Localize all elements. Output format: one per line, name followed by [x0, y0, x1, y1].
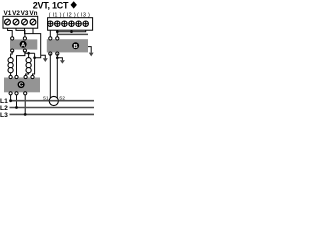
terminal C bottom 1 — [9, 92, 12, 95]
wire C to L2 — [16, 95, 18, 108]
wire box B to CT S2 — [56, 54, 58, 99]
terminal B bottom-right — [56, 52, 59, 55]
current transformer CT on L1 — [49, 96, 58, 105]
svg-text:Vn: Vn — [29, 10, 37, 17]
terminal block voltage V1 V2 V3 Vn — [3, 16, 38, 28]
wire Vn drop — [32, 28, 34, 34]
svg-text:S1: S1 — [43, 96, 49, 101]
terminal A bottom-right — [23, 49, 26, 52]
svg-text:L3: L3 — [0, 112, 8, 119]
svg-text:V2: V2 — [12, 10, 20, 17]
wire C to L1 — [10, 95, 12, 101]
VT box C — [4, 78, 40, 93]
junction dot S2 bus 1 — [56, 30, 59, 33]
wire C to L3 — [24, 95, 26, 115]
arrow down neutral — [43, 58, 48, 62]
terminal C top 2 — [15, 75, 18, 78]
screw terminal I2 S1 — [62, 21, 67, 26]
line L1 — [10, 100, 95, 102]
junction dot S2 bus 2 — [70, 30, 73, 33]
svg-text:V1: V1 — [3, 10, 11, 17]
screw terminal I2 S2 — [69, 21, 74, 26]
screw terminal I3 S1 — [76, 21, 81, 26]
terminal C bottom 3 — [24, 92, 27, 95]
screw terminal I3 S2 — [83, 21, 88, 26]
stub I2 S2 — [71, 30, 73, 32]
terminal A top-left — [11, 37, 14, 40]
terminal C top 1 — [9, 75, 12, 78]
emblem C — [18, 81, 25, 89]
terminal A top-right — [23, 37, 26, 40]
coil VT2 — [26, 53, 32, 76]
wire I1 S2 to box B — [56, 30, 58, 37]
screw terminal Vn — [30, 19, 36, 25]
title 2VT, 1CT — [33, 0, 69, 10]
line L2 — [10, 107, 95, 109]
wire S2 to down arrow — [57, 58, 62, 61]
arrow load direction from box B — [88, 47, 94, 57]
screw terminal I1 S2 — [55, 21, 60, 26]
jumper bus S2 terminals — [57, 30, 85, 32]
junction dot S2 branch — [56, 57, 59, 60]
terminal C top 4 — [31, 75, 34, 78]
coil VT1 — [8, 57, 13, 76]
terminal C bottom 2 — [15, 92, 18, 95]
terminal B bottom-left — [49, 52, 52, 55]
wire branch back to VT node — [35, 55, 41, 57]
terminal block current I1 I2 I3 — [48, 18, 93, 31]
svg-text:S2: S2 — [59, 96, 65, 101]
svg-text:2VT, 1CT: 2VT, 1CT — [33, 0, 69, 10]
line L3 — [10, 113, 95, 115]
terminal A bottom-left — [11, 49, 14, 52]
terminal B top-right — [56, 37, 59, 40]
emblem B — [72, 42, 79, 50]
wire V2 to fuse box A — [16, 28, 25, 38]
terminal C top 3 — [24, 75, 27, 78]
svg-text:B: B — [74, 44, 78, 50]
wire I1 S1 to box B — [49, 30, 51, 37]
junction dot L2 — [15, 106, 18, 109]
screw terminal I1 S1 — [48, 21, 53, 26]
screw terminal V3 — [22, 19, 28, 25]
wire V1 to fuse box A — [8, 28, 13, 38]
wire fuse A branch right — [25, 51, 35, 53]
svg-text:V3: V3 — [21, 10, 29, 17]
junction dot L1 — [9, 99, 12, 102]
terminal B top-left — [49, 37, 52, 40]
shorting box B — [47, 39, 88, 52]
screw terminal V1 — [5, 19, 11, 25]
junction dot coil2 tap — [27, 52, 30, 55]
wire fuse A to common — [17, 53, 25, 76]
junction dot VT2 node — [33, 56, 36, 59]
arrow down S2 — [60, 60, 65, 63]
screw terminal V2 — [13, 19, 19, 25]
emblem A — [20, 41, 27, 49]
fuse box A — [10, 39, 37, 49]
diamond marker — [71, 1, 77, 8]
gray link bus — [57, 33, 88, 35]
junction dot L3 — [24, 113, 27, 116]
wire V3 bus — [25, 28, 41, 55]
wire VT2 feed down — [33, 53, 35, 76]
wire fuse A to coil 1 — [11, 51, 13, 57]
wire to down arrow — [41, 55, 46, 58]
wire box B to CT S1 — [49, 54, 51, 99]
